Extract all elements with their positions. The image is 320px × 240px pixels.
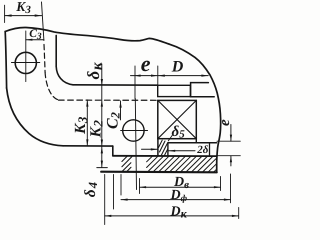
bearing box outline <box>158 100 197 138</box>
bearing box diagonal 1 <box>158 100 197 138</box>
bearing box diagonal 2 <box>158 100 197 138</box>
svg-text:e: e <box>217 119 233 126</box>
e / D shared dimension line <box>131 75 209 77</box>
svg-text:C3: C3 <box>29 28 42 42</box>
right side upper tick (ledge level) <box>217 140 240 142</box>
step down at spot-face <box>112 146 114 156</box>
delta-4 up arrow under flange top <box>101 147 103 153</box>
inner wall horizontal top of lower belt <box>73 84 158 86</box>
flange top face left part <box>63 145 113 147</box>
bolt hole top-left: circle <box>15 52 36 73</box>
bolt axis vertical top-left <box>25 31 27 82</box>
svg-text:D: D <box>171 58 184 75</box>
C3 dimension line <box>26 39 44 41</box>
C3 left arrow <box>26 39 33 41</box>
hidden wall line (dashed) upper part <box>44 45 45 73</box>
K3 down arrow <box>86 139 88 145</box>
bottom extension verticals <box>104 175 106 225</box>
delta-4 down arrow at bottom tick <box>101 161 103 167</box>
C2 hole horizontal centerline <box>121 130 148 132</box>
boss bottom line to outer curve <box>190 96 214 98</box>
Dv dimension line <box>140 186 221 188</box>
bolt hole horizontal centerline <box>11 62 39 64</box>
bearing cover plate rectangle <box>158 85 191 96</box>
svg-text:δк: δк <box>84 62 105 80</box>
K3/C3 right extension line (wall) <box>42 2 44 41</box>
e right arrow <box>151 75 158 77</box>
boss top face right <box>191 83 209 97</box>
svg-text:δ4: δ4 <box>82 182 100 197</box>
Dk dimension line <box>105 215 239 217</box>
bearing box right edge extended down <box>195 139 197 143</box>
hidden parting line horizontal (dashed) <box>59 99 158 101</box>
svg-text:2δ: 2δ <box>196 144 209 156</box>
K2 up arrow at parting line <box>101 100 103 107</box>
delta-k down arrow at wall line <box>101 79 103 86</box>
hatch band of flange section <box>147 156 217 172</box>
e right extension line <box>157 66 159 85</box>
delta-k dimension line vertical <box>101 64 103 167</box>
2delta dimension line with left arrow <box>169 150 195 152</box>
hatch column left of bolt hole in flange <box>122 156 132 171</box>
K2 down arrow at flange top <box>101 140 103 146</box>
outer corner arc bottom-left <box>7 88 63 146</box>
rim inner vertical <box>209 143 211 156</box>
Df dimension line <box>121 199 231 201</box>
K3 right arrow <box>35 14 42 16</box>
K3 left extension line <box>4 5 6 22</box>
outer profile of housing (top wavy edge, right curve, outer rim) <box>5 27 220 172</box>
svg-text:C2: C2 <box>104 112 122 129</box>
steep hatch wall column under bearing <box>159 140 168 155</box>
svg-text:e: e <box>141 51 151 76</box>
svg-text:K3: K3 <box>15 0 31 16</box>
left edge of housing <box>5 32 6 89</box>
right side lower tick (flange top level) <box>217 155 240 157</box>
wall column right edge under bearing <box>167 143 169 156</box>
seat ledge line right of bearing <box>168 142 217 144</box>
K3 vertical dimension line <box>86 100 88 146</box>
bearing box left edge extended to flange <box>157 139 159 156</box>
K3 up arrow <box>86 100 88 107</box>
e left extension = bolt axis of lower flange <box>134 66 136 99</box>
inner wall fillet to horizontal <box>56 67 73 85</box>
flange bottom face <box>101 171 217 174</box>
svg-text:K2: K2 <box>87 120 105 139</box>
K3 top dimension line <box>5 15 42 17</box>
right vertical dimension upper leg <box>230 125 232 142</box>
D left arrow at shared extension <box>158 75 165 77</box>
C2 up arrow <box>119 101 121 108</box>
hidden wall fillet (dashed) <box>45 73 58 100</box>
2delta left-side arrow line <box>142 148 158 150</box>
delta-4 bottom tick <box>97 167 108 169</box>
svg-text:δ5: δ5 <box>172 124 186 141</box>
svg-text:Dк: Dк <box>170 205 188 221</box>
inner wall vertical (solid) <box>55 35 57 66</box>
bolt axis through C2 hole down to flange <box>135 99 136 190</box>
flange recess top edge <box>113 155 217 157</box>
C2 vertical dimension line <box>120 101 122 120</box>
right vertical dimension lower leg <box>230 156 232 166</box>
e left arrow <box>134 75 141 77</box>
D right arrow at profile <box>201 75 208 77</box>
delta5 leader stroke <box>168 135 172 141</box>
K3 left arrow <box>5 14 12 16</box>
C2 hole circle <box>123 120 144 141</box>
